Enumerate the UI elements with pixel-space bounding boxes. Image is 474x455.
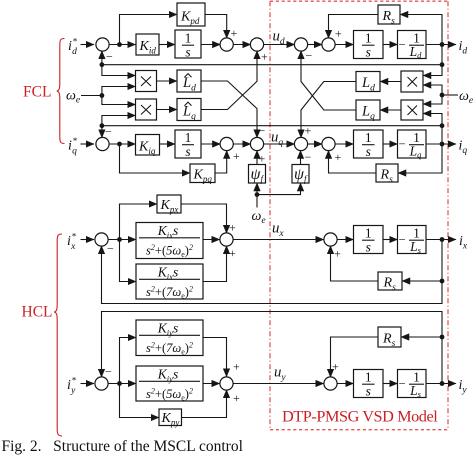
svg-text:+: + [334, 247, 341, 261]
svg-text:uq: uq [271, 130, 283, 149]
svg-text:Rs: Rs [380, 168, 394, 186]
svg-text:Kixs: Kixs [157, 265, 178, 282]
svg-text:s2+(7ωe)2: s2+(7ωe)2 [146, 341, 193, 357]
svg-text:1: 1 [365, 370, 372, 385]
svg-text:1: 1 [185, 130, 192, 145]
svg-text:i*x: i*x [67, 232, 76, 253]
svg-text:iq: iq [459, 139, 468, 157]
svg-text:i*d: i*d [68, 37, 77, 58]
svg-text:1: 1 [365, 226, 372, 241]
svg-text:s: s [366, 144, 371, 159]
svg-text:Kpy: Kpy [161, 411, 180, 427]
svg-text:ψf: ψf [251, 166, 265, 184]
svg-text:Kiys: Kiys [157, 321, 178, 338]
svg-text:ud: ud [273, 29, 285, 48]
svg-text:s: s [366, 45, 371, 60]
svg-text:FCL: FCL [23, 84, 51, 101]
svg-text:s2+(7ωe)2: s2+(7ωe)2 [146, 285, 193, 301]
svg-text:−: − [105, 365, 112, 379]
svg-text:−: − [259, 124, 266, 138]
svg-text:Ld: Ld [182, 75, 196, 94]
svg-text:Ld: Ld [409, 44, 423, 60]
svg-text:+: + [261, 50, 268, 64]
svg-text:Rs: Rs [382, 332, 396, 350]
svg-text:HCL: HCL [22, 304, 53, 321]
svg-text:Kid: Kid [139, 39, 157, 55]
svg-text:ψf: ψf [294, 166, 308, 184]
svg-text:+: + [233, 149, 240, 163]
svg-text:1: 1 [185, 31, 192, 46]
svg-text:s: s [185, 45, 190, 60]
svg-text:+: + [231, 26, 238, 40]
svg-text:s2+(5ωe)2: s2+(5ωe)2 [146, 243, 193, 259]
svg-text:−: − [305, 150, 312, 164]
svg-text:Kpx: Kpx [160, 198, 179, 214]
svg-text:Ls: Ls [409, 383, 422, 399]
svg-text:Kpq: Kpq [193, 168, 213, 184]
svg-text:s: s [185, 144, 190, 159]
svg-text:s: s [366, 384, 371, 399]
svg-text:DTP-PMSG VSD Model: DTP-PMSG VSD Model [282, 407, 438, 426]
svg-text:i*q: i*q [68, 136, 77, 157]
svg-text:+: + [332, 360, 339, 374]
svg-text:uy: uy [274, 365, 286, 384]
svg-text:−: − [398, 377, 405, 391]
svg-text:Kiys: Kiys [157, 367, 178, 384]
svg-text:−: − [398, 137, 405, 151]
svg-text:Kixs: Kixs [157, 223, 178, 240]
svg-text:+: + [259, 152, 266, 166]
svg-text:Lq: Lq [182, 104, 196, 123]
svg-text:ix: ix [459, 234, 468, 252]
svg-text:Lq: Lq [361, 104, 375, 123]
svg-text:+: + [233, 360, 240, 374]
svg-text:−: − [306, 49, 313, 63]
svg-text:−: − [107, 242, 114, 256]
svg-text:−: − [398, 38, 405, 52]
svg-text:+: + [229, 221, 236, 235]
svg-text:i*y: i*y [67, 376, 76, 397]
svg-text:Ld: Ld [361, 75, 375, 94]
svg-text:−: − [105, 125, 112, 139]
svg-text:1: 1 [365, 31, 372, 46]
svg-text:id: id [459, 39, 468, 57]
svg-text:Rs: Rs [383, 276, 397, 294]
svg-text:s2+(5ωe)2: s2+(5ωe)2 [146, 387, 193, 403]
svg-text:Kiq: Kiq [138, 140, 156, 156]
svg-text:ωe: ωe [66, 89, 80, 106]
svg-text:Rs: Rs [382, 9, 396, 27]
svg-text:Kpd: Kpd [180, 10, 200, 26]
svg-text:Ls: Ls [409, 239, 422, 255]
svg-text:−: − [398, 233, 405, 247]
svg-text:Lq: Lq [409, 143, 423, 159]
svg-text:s: s [366, 240, 371, 255]
svg-text:+: + [229, 246, 236, 260]
svg-text:iy: iy [459, 378, 468, 396]
svg-text:ux: ux [272, 221, 284, 240]
svg-text:+: + [335, 150, 342, 164]
svg-text:Fig. 2. Structure of the MSC: Fig. 2. Structure of the MSCL control [2, 438, 243, 455]
svg-text:ωe: ωe [252, 209, 266, 226]
svg-text:+: + [335, 27, 342, 41]
svg-text:1: 1 [365, 130, 372, 145]
svg-text:+: + [233, 391, 240, 405]
svg-text:+: + [305, 124, 312, 138]
svg-text:ωe: ωe [459, 89, 473, 106]
svg-text:−: − [106, 50, 113, 64]
